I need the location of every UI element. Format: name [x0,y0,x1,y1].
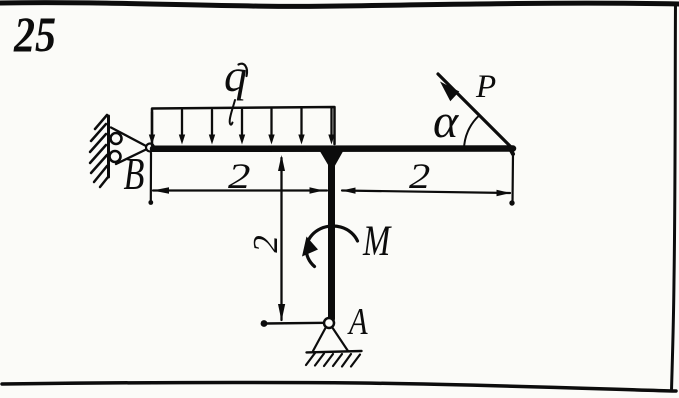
distributed load arrows [149,108,335,145]
svg-text:A: A [347,301,368,343]
dimension line right span [342,191,510,194]
extension line left [150,153,152,203]
svg-text:2: 2 [246,235,285,253]
extension line at A with dot [265,322,326,325]
support B rollers [111,133,122,144]
vertical dimension line [280,158,282,320]
force P arrow [438,74,512,148]
support B bracket [111,128,147,165]
beam right end hook [510,149,513,155]
wall hatching [90,115,108,187]
ground line at A [307,351,362,352]
top border [0,3,679,7]
dimension line left span [153,189,327,191]
svg-text:2: 2 [409,156,430,196]
angle arc alpha [464,116,479,150]
pin B [146,144,154,152]
svg-text:2: 2 [228,156,251,196]
svg-text:α: α [433,95,459,148]
svg-text:P: P [475,69,496,105]
svg-text:B: B [124,148,145,199]
right border [672,3,676,391]
extension line right [511,153,514,204]
vertical member [328,151,335,319]
support A triangle [313,327,348,351]
T-joint fillets [320,151,344,167]
distributed load outline [152,107,335,145]
wall at support B [107,116,110,177]
ground hatching at A [306,353,360,367]
moment M arc arrow [306,226,357,267]
svg-text:M: M [362,218,392,265]
svg-text:25: 25 [13,6,56,62]
pin A [324,318,334,328]
beam (horizontal member) [153,145,513,152]
bottom border [2,382,676,391]
svg-text:q: q [224,50,247,101]
